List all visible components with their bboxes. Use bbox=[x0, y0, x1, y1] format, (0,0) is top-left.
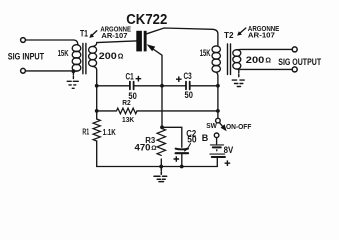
emitter arrowhead bbox=[147, 44, 156, 51]
node junction T1 primary bottom bbox=[72, 69, 76, 73]
label battery plus bbox=[225, 160, 231, 166]
wire collector lead bbox=[147, 28, 218, 46]
svg-text:T2: T2 bbox=[224, 30, 234, 40]
wire T2 vertical mid bbox=[217, 86, 219, 111]
wire rail to switch bbox=[217, 111, 219, 118]
switch SW top contact bbox=[216, 118, 221, 123]
transformer T2 primary winding 15K bbox=[212, 46, 220, 53]
transformer T1 secondary winding 200 ohm bbox=[89, 46, 97, 53]
svg-text:8V: 8V bbox=[224, 145, 234, 155]
wire T1 secondary top to base bbox=[93, 43, 97, 47]
svg-text:AR-107: AR-107 bbox=[248, 31, 275, 40]
node SIG OUTPUT bottom terminal bbox=[292, 67, 297, 72]
wire input bottom to T1 primary bottom bbox=[26, 70, 77, 72]
node SIG INPUT bottom terminal bbox=[21, 68, 26, 73]
node junction R2 rail left bbox=[95, 109, 99, 113]
label arrow T1 bbox=[92, 31, 97, 36]
resistor R2 13K zigzag bbox=[117, 108, 138, 114]
svg-text:B: B bbox=[202, 133, 209, 143]
svg-text:15K: 15K bbox=[58, 48, 70, 58]
ground under T2 bbox=[232, 71, 244, 87]
label C1 plus bbox=[136, 76, 142, 82]
svg-text:Ω: Ω bbox=[265, 58, 271, 65]
wire base lead bbox=[97, 41, 137, 43]
svg-text:50: 50 bbox=[187, 135, 196, 145]
node SIG INPUT top terminal bbox=[21, 38, 26, 43]
svg-text:SIG INPUT: SIG INPUT bbox=[8, 50, 45, 61]
svg-text:C3: C3 bbox=[184, 71, 192, 81]
switch lever arrowhead bbox=[221, 124, 227, 131]
battery B 8V bbox=[210, 144, 223, 146]
wire battery bottom to rail bbox=[216, 158, 218, 166]
transformer T1 core bbox=[83, 44, 86, 74]
wire R2 rail (y 110.9) bbox=[97, 110, 218, 112]
svg-text:C1: C1 bbox=[126, 72, 134, 82]
switch SW bottom contact bbox=[214, 133, 219, 138]
node junction C-rail right bbox=[216, 84, 220, 88]
svg-text:200: 200 bbox=[99, 51, 117, 61]
capacitor C3 bbox=[186, 82, 190, 90]
svg-text:T1: T1 bbox=[80, 28, 88, 38]
wire T2 primary bottom down bbox=[216, 72, 218, 86]
node junction C2 bottom bbox=[180, 165, 184, 169]
wire R1 bottom to rail bbox=[96, 141, 98, 167]
wire C-rail (y 85.8) bbox=[97, 85, 218, 87]
label arrow T2 ARGONNE bbox=[240, 28, 246, 34]
ground under T1 bbox=[67, 73, 78, 89]
svg-text:AR-107: AR-107 bbox=[101, 31, 127, 40]
wire switch to battery bbox=[216, 138, 218, 144]
svg-text:R1: R1 bbox=[82, 127, 89, 136]
ground under R3 bbox=[154, 168, 167, 182]
wire C2 top L-branch bbox=[162, 127, 182, 147]
svg-text:200: 200 bbox=[246, 55, 264, 65]
svg-text:ON-OFF: ON-OFF bbox=[226, 122, 252, 131]
svg-text:SIG OUTPUT: SIG OUTPUT bbox=[278, 56, 321, 67]
wire bottom rail bbox=[97, 166, 218, 168]
node SIG OUTPUT top terminal bbox=[292, 47, 297, 52]
resistor R1 1.1K zigzag bbox=[93, 119, 100, 141]
transformer T2 secondary winding 200 ohm bbox=[233, 50, 241, 57]
label C3 plus bbox=[176, 76, 182, 82]
wire emitter lead bbox=[150, 47, 163, 127]
wire input top to T1 primary top bbox=[26, 40, 78, 45]
wire R3 bottom bbox=[160, 159, 162, 167]
svg-text:Ω: Ω bbox=[151, 145, 157, 152]
transistor Q1 CK722 body bbox=[136, 31, 146, 52]
node junction emitter x C-rail bbox=[160, 84, 164, 88]
capacitor C2 bbox=[176, 148, 188, 151]
svg-text:13K: 13K bbox=[122, 117, 134, 124]
transformer T2 core bbox=[228, 44, 231, 75]
resistor R3 470 ohm zigzag bbox=[157, 128, 165, 155]
svg-text:CK722: CK722 bbox=[126, 12, 167, 28]
svg-text:Ω: Ω bbox=[118, 53, 124, 60]
label leader C2 bbox=[185, 144, 191, 152]
transformer T1 primary winding 15K bbox=[72, 45, 81, 52]
svg-text:1.1K: 1.1K bbox=[103, 127, 117, 137]
wire C2 bottom bbox=[181, 155, 183, 167]
wire T2 secondary top to output bbox=[237, 48, 292, 50]
switch lever bbox=[219, 122, 224, 128]
capacitor C1 bbox=[130, 82, 134, 90]
svg-text:15K: 15K bbox=[200, 48, 211, 58]
wire T2 secondary bottom to output bbox=[237, 68, 292, 70]
node junction base rail left bbox=[95, 84, 99, 88]
label C2 plus bbox=[174, 156, 180, 162]
svg-text:470: 470 bbox=[135, 142, 151, 152]
node junction emitter/R3/C2 bbox=[160, 125, 164, 129]
wire T1 secondary bottom down bbox=[93, 66, 97, 119]
svg-text:SW: SW bbox=[206, 121, 217, 130]
node junction R2 rail right bbox=[216, 109, 220, 113]
svg-text:R2: R2 bbox=[122, 100, 131, 107]
svg-text:50: 50 bbox=[185, 90, 193, 100]
node junction R3 bottom bbox=[159, 165, 163, 169]
